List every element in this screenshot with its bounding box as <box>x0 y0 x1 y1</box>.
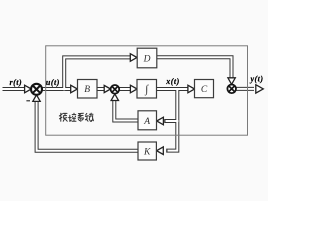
arrowhead into integrator block <box>130 85 137 93</box>
summing junction S3 <box>227 85 236 94</box>
Chinese label: controlled-system (4 hanzi drawn as strokes) <box>59 113 93 121</box>
minus sign at junction S1 <box>26 100 30 102</box>
wire block K output to junction S1 <box>37 101 139 151</box>
svg-text:C: C <box>201 85 208 95</box>
wire block A output to junction S2 <box>114 100 138 120</box>
arrowhead into junction S1 <box>25 85 32 93</box>
svg-text:B: B <box>84 85 90 95</box>
block B <box>78 80 98 99</box>
svg-text:A: A <box>143 117 150 127</box>
arrowhead from D into junction S3 top <box>228 78 235 85</box>
hanzi 3 xi <box>78 113 84 121</box>
block C <box>195 80 214 98</box>
wire stub from branch to block A <box>164 119 178 123</box>
hanzi 1 bei <box>59 113 67 121</box>
svg-text:D: D <box>143 55 151 65</box>
summing junction S2 <box>111 85 120 94</box>
wire branch from u(t) up to block D <box>64 57 132 90</box>
svg-text:r(t): r(t) <box>9 78 22 87</box>
wire integrator to block C (signal x(t)) <box>157 87 192 91</box>
svg-text:u(t): u(t) <box>46 78 60 87</box>
outer box of controlled system <box>46 46 248 135</box>
block A <box>138 111 157 130</box>
block D <box>137 48 157 68</box>
integrator block <box>137 80 157 99</box>
block K <box>138 142 156 160</box>
hanzi 4 tong <box>85 113 93 121</box>
wire block D output to junction S3 <box>157 57 232 78</box>
svg-text:y(t): y(t) <box>249 74 263 83</box>
hanzi 2 kong <box>69 113 76 121</box>
arrowhead into junction S2 <box>104 85 110 92</box>
arrowhead from A into junction S2 bottom <box>111 94 118 101</box>
summing junction S1 <box>31 84 42 95</box>
svg-text:K: K <box>143 148 151 158</box>
arrowhead from K into junction S1 bottom <box>33 95 40 102</box>
wire branch from x(t) down to blocks A and K <box>166 88 177 151</box>
arrowhead into block B <box>71 85 78 93</box>
arrowhead into block D <box>130 54 137 62</box>
wire input r(t) to junction S1 <box>3 87 28 91</box>
arrowhead into block K <box>157 147 164 155</box>
output arrowhead y(t) <box>256 85 263 93</box>
wire block B to junction S2 <box>97 87 107 91</box>
wire junction S1 to block B (signal u(t)) <box>42 87 74 91</box>
arrowhead into block C <box>188 85 195 93</box>
wire junction S3 to output y(t) <box>236 87 255 91</box>
arrowhead into block A <box>157 117 164 125</box>
svg-text:x(t): x(t) <box>165 77 180 86</box>
wire junction S2 to integrator block <box>119 87 133 91</box>
